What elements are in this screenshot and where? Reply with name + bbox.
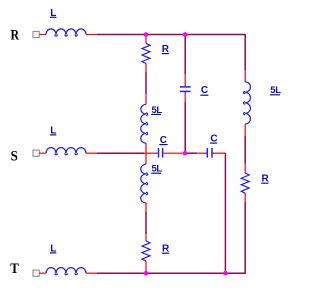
terminal S square (33, 150, 39, 156)
wire lead resistor R2 bottom (145, 261, 147, 272)
wire right branch mid maroon (244, 136, 246, 164)
svg-text:R: R (11, 28, 20, 44)
capacitor C2 (S row left) (156, 148, 165, 158)
wire lead resistor R3 top (244, 164, 246, 173)
wire S rail maroon mid (187, 152, 197, 154)
wire T rail maroon (97, 202, 245, 273)
wire lead resistor R1 top (145, 35, 147, 43)
junction dot R rail x146 (144, 32, 149, 37)
inductor 5L1 (upper middle) (141, 104, 148, 143)
wire lead T row right (86, 272, 97, 274)
wire lead capacitor C1 top (184, 74, 186, 85)
wire S rail red lead to C2 (144, 152, 157, 154)
wire lead resistor R3 bottom (244, 193, 246, 202)
junction dot S rail x185 (183, 151, 188, 156)
wire lead inductor 5L3 top (244, 71, 246, 82)
wire lead inductor 5L1 bottom + cross S rail (145, 143, 147, 164)
wire lead to C3 left (197, 152, 206, 154)
svg-text:T: T (10, 261, 19, 277)
capacitor C1 (vertical) (180, 85, 191, 93)
svg-text:S: S (11, 149, 18, 165)
wire lead capacitor C1 bottom (184, 93, 186, 102)
wire lead resistor R2 top (145, 234, 147, 241)
inductor L (T row) (46, 268, 86, 275)
svg-text:5L: 5L (270, 84, 281, 95)
inductor L (S row) (46, 148, 86, 155)
resistor R1 (top middle) (142, 43, 150, 63)
svg-text:C: C (201, 85, 208, 96)
wire mid branch upper maroon (145, 72, 147, 94)
junction dot T rail x146 (144, 271, 149, 276)
wire lead inductor 5L1 top (145, 94, 147, 104)
inductor L (R row) (46, 29, 86, 36)
wire cap branch upper maroon (184, 35, 186, 74)
resistor R3 (right) (241, 173, 249, 193)
wire lead inductor 5L3 bottom (244, 124, 246, 136)
wire cap branch lower maroon (184, 102, 186, 152)
wire lead S row left (40, 152, 47, 154)
wire lead R row right (86, 34, 97, 36)
wire lead C2 right to junction (165, 152, 184, 154)
junction dot T rail x225 (223, 271, 228, 276)
resistor R2 (bottom middle) (142, 241, 150, 261)
svg-text:5L: 5L (152, 104, 163, 115)
terminal T square (33, 270, 39, 276)
wire R rail maroon (97, 35, 245, 71)
wire S rail maroon left (97, 152, 144, 154)
wire lead resistor R1 bottom (145, 64, 147, 73)
wire lead inductor 5L2 bottom (145, 203, 147, 212)
inductor 5L3 (right) (244, 82, 251, 124)
wire lead R row left (40, 34, 47, 36)
terminal R square (33, 31, 39, 37)
wire S to T corner maroon (224, 153, 226, 273)
wire lead C3 right to corner (214, 152, 226, 154)
junction dot R rail x185 (183, 32, 188, 37)
wire lead T row left (40, 272, 47, 274)
svg-text:5L: 5L (152, 163, 163, 174)
capacitor C3 (S row right) (206, 148, 215, 158)
wire lead S row right (86, 152, 97, 154)
wire mid branch lower maroon (145, 212, 147, 234)
inductor 5L2 (lower middle) (141, 164, 148, 203)
